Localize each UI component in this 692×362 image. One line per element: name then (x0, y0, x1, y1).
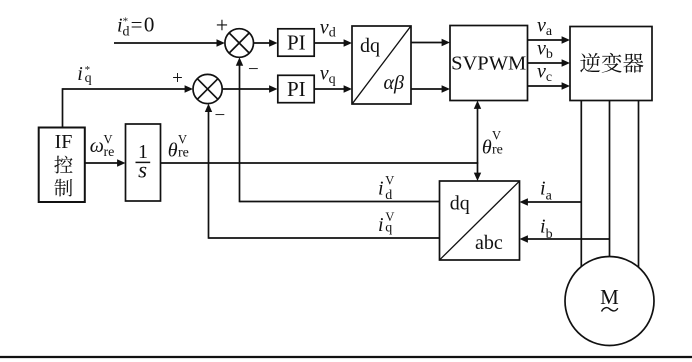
label M (600, 285, 619, 309)
svg-text:−: − (248, 59, 259, 80)
PI controller box PI1 (278, 29, 314, 56)
label abc (475, 232, 503, 254)
inverter block (ni bian qi) (570, 27, 652, 101)
label ia (540, 178, 553, 204)
label alpha-beta (384, 72, 404, 94)
label idv (378, 173, 394, 202)
label dq (transform) (360, 35, 380, 57)
svg-text:q: q (385, 221, 392, 236)
wire ia tap (520, 198, 582, 205)
plus sign at S1 (216, 12, 228, 37)
svg-text:i: i (378, 177, 384, 199)
wire dq-ab to SVPWM a (411, 39, 450, 46)
label iqv (378, 210, 394, 236)
wire id* reference input (114, 39, 225, 46)
wire inverter phase leg a (580, 101, 582, 267)
PI controller box PI2 (278, 75, 314, 102)
label IF control text (54, 131, 72, 197)
label theta_re_v (after integrator) (168, 133, 189, 162)
wire theta_re up to SVPWM (474, 101, 481, 164)
wire SVPWM to inverter vc (528, 82, 571, 89)
svg-text:abc: abc (475, 232, 503, 254)
svg-text:re: re (492, 142, 503, 157)
svg-text:PI: PI (287, 31, 306, 55)
label dq (abc block) (450, 192, 470, 214)
wire SVPWM to inverter va (528, 36, 571, 43)
label va (537, 15, 553, 40)
label ib (540, 216, 553, 242)
label inverter chinese (580, 53, 643, 73)
svg-text:d: d (385, 188, 392, 203)
wire idv feedback vertical to S1 (236, 57, 243, 202)
svg-text:V: V (178, 133, 187, 147)
wire inverter phase leg b (609, 101, 611, 258)
wire iq* down to IF box (62, 88, 64, 127)
wire PI1 to dq/ab block vd (314, 39, 352, 46)
label tilde under M (602, 308, 618, 312)
minus sign at S1 (248, 59, 259, 80)
label PI1 (287, 31, 306, 55)
motor M circle (565, 257, 654, 346)
svg-text:V: V (385, 173, 394, 187)
dq to alpha-beta transform block (352, 26, 411, 104)
svg-text:dq: dq (360, 35, 380, 57)
svg-text:M: M (600, 285, 619, 309)
wire IF to integrator (85, 159, 126, 166)
svg-text:i*d=0: i*d=0 (117, 13, 156, 40)
summing junction S2 (iq loop) (193, 74, 222, 103)
wire SVPWM to inverter vb (528, 59, 571, 66)
svg-text:θ: θ (168, 140, 178, 162)
svg-text:SVPWM: SVPWM (451, 53, 526, 75)
integrator 1/s block (126, 124, 161, 201)
label 1/s (136, 141, 151, 182)
abc to dq transform block (440, 181, 520, 260)
bottom horizontal rule (0, 356, 692, 358)
svg-text:θ: θ (482, 137, 492, 159)
wire dq-ab to SVPWM b (411, 85, 450, 92)
wire iqv feedback vertical to S2 (205, 104, 212, 239)
svg-text:αβ: αβ (384, 72, 404, 94)
wire inverter phase leg c (638, 101, 640, 268)
minus sign at S2 (215, 105, 226, 126)
wire S1 to PI1 (254, 39, 278, 46)
svg-text:re: re (104, 145, 115, 160)
svg-text:−: − (215, 105, 226, 126)
label iq* (77, 63, 91, 86)
wire iq* reference (63, 85, 194, 92)
svg-text:PI: PI (287, 77, 306, 101)
IF control block (39, 128, 85, 203)
svg-text:i: i (378, 214, 384, 236)
SVPWM block (450, 26, 528, 101)
wire theta_re horizontal (161, 162, 478, 164)
label SVPWM (451, 53, 526, 75)
label vd (320, 17, 336, 41)
label PI2 (287, 77, 306, 101)
wire ib tap (520, 235, 610, 242)
label theta_re_v (at SVPWM) (482, 129, 503, 159)
wire theta_re down to abc-dq (474, 162, 481, 181)
svg-text:s: s (138, 158, 147, 183)
wire idv feedback horizontal (240, 201, 440, 203)
label vq (320, 62, 336, 87)
label vc (537, 61, 552, 86)
wire PI2 to dq/ab block vq (314, 85, 352, 92)
plus sign at S2 (172, 68, 183, 89)
svg-text:ω: ω (90, 135, 104, 157)
svg-text:dq: dq (450, 192, 470, 214)
svg-text:+: + (216, 12, 228, 37)
wire S2 to PI2 (222, 85, 277, 92)
wire iqv feedback horizontal (209, 237, 440, 239)
label vb (537, 38, 553, 63)
svg-text:IF: IF (55, 131, 73, 153)
svg-text:V: V (492, 129, 501, 143)
svg-text:+: + (172, 68, 183, 89)
svg-text:re: re (178, 145, 189, 160)
label id*=0 (117, 13, 156, 40)
svg-text:i*q: i*q (77, 63, 91, 86)
summing junction S1 (id loop) (225, 29, 254, 58)
label omega_re_v (90, 133, 115, 161)
